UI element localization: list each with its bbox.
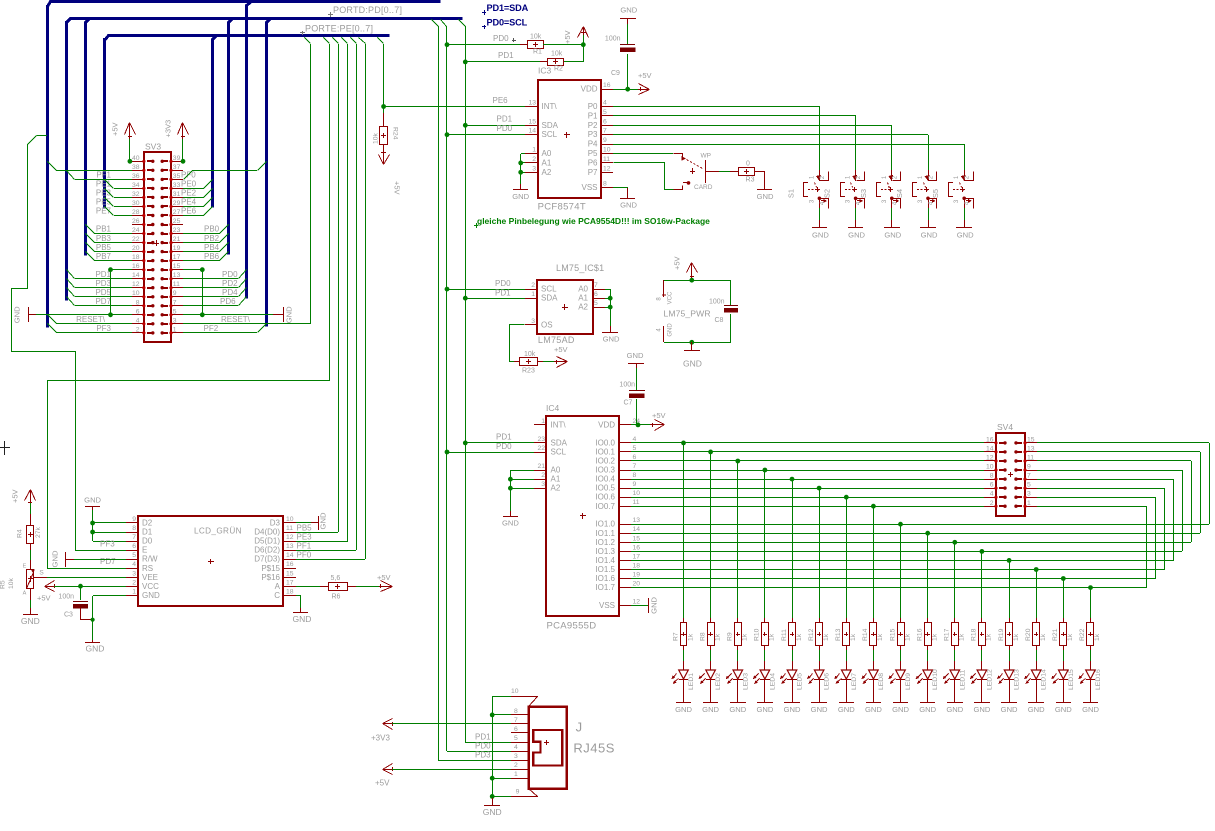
svg-text:27: 27 — [173, 209, 181, 216]
svg-text:PD3: PD3 — [475, 750, 491, 759]
svg-text:LED13: LED13 — [1014, 669, 1021, 690]
svg-text:SCL: SCL — [542, 130, 558, 139]
svg-text:GND: GND — [919, 705, 936, 714]
svg-text:IO0.7: IO0.7 — [595, 502, 615, 511]
svg-text:1k: 1k — [1013, 633, 1020, 641]
svg-text:P6: P6 — [588, 158, 598, 167]
svg-text:1: 1 — [532, 147, 536, 154]
svg-text:24: 24 — [132, 227, 140, 234]
svg-text:LED11: LED11 — [959, 670, 966, 690]
svg-text:VDD: VDD — [598, 420, 615, 429]
svg-text:6: 6 — [990, 482, 994, 489]
svg-text:A1: A1 — [542, 158, 552, 167]
svg-text:36: 36 — [132, 173, 140, 180]
svg-text:9: 9 — [132, 516, 136, 523]
svg-text:23: 23 — [537, 436, 545, 443]
svg-text:C3: C3 — [64, 612, 73, 619]
svg-text:12: 12 — [603, 165, 611, 172]
svg-text:S4: S4 — [895, 189, 904, 198]
svg-text:VCC: VCC — [668, 291, 674, 304]
svg-text:IO1.5: IO1.5 — [595, 565, 615, 574]
svg-text:18: 18 — [633, 563, 641, 570]
svg-text:PB7: PB7 — [96, 252, 112, 261]
svg-text:GND: GND — [892, 705, 909, 714]
svg-text:VEE: VEE — [142, 573, 158, 582]
svg-text:LCD_GRÜN: LCD_GRÜN — [194, 526, 242, 536]
svg-text:LED9: LED9 — [905, 673, 912, 690]
svg-text:2: 2 — [531, 282, 535, 289]
svg-text:PB2: PB2 — [204, 234, 220, 243]
svg-text:PD7: PD7 — [95, 297, 111, 306]
svg-text:1k: 1k — [904, 633, 911, 641]
svg-text:18: 18 — [132, 254, 140, 261]
svg-text:PF0: PF0 — [181, 171, 196, 180]
svg-text:38: 38 — [132, 164, 140, 171]
svg-text:PB0: PB0 — [204, 225, 220, 234]
svg-text:PE2: PE2 — [181, 189, 197, 198]
svg-text:P$16: P$16 — [261, 573, 280, 582]
svg-text:100n: 100n — [619, 382, 635, 389]
svg-text:S2: S2 — [823, 189, 832, 198]
svg-text:IC3: IC3 — [538, 66, 552, 76]
svg-text:PD0: PD0 — [222, 270, 238, 279]
svg-text:1k: 1k — [714, 633, 721, 641]
svg-text:IO1.2: IO1.2 — [595, 538, 615, 547]
svg-text:D7(D3): D7(D3) — [254, 555, 280, 564]
svg-text:2: 2 — [136, 326, 140, 333]
svg-text:100n: 100n — [709, 299, 725, 306]
svg-text:LED16: LED16 — [1095, 669, 1102, 690]
svg-text:PD0=SCL: PD0=SCL — [487, 18, 528, 28]
svg-text:S1: S1 — [786, 189, 795, 198]
svg-text:10: 10 — [132, 290, 140, 297]
svg-text:100n: 100n — [58, 594, 74, 601]
svg-text:+5V: +5V — [377, 573, 391, 582]
svg-text:PD1=SDA: PD1=SDA — [487, 3, 529, 13]
svg-text:8: 8 — [136, 299, 140, 306]
svg-text:IO0.5: IO0.5 — [595, 484, 615, 493]
svg-text:SDA: SDA — [542, 121, 559, 130]
svg-text:10: 10 — [633, 490, 641, 497]
svg-text:PD5: PD5 — [95, 288, 111, 297]
svg-text:LED14: LED14 — [1041, 669, 1048, 690]
svg-text:16: 16 — [132, 263, 140, 270]
svg-text:GND: GND — [756, 705, 773, 714]
svg-text:2: 2 — [990, 500, 994, 507]
svg-text:15: 15 — [286, 570, 294, 577]
svg-text:4: 4 — [633, 436, 637, 443]
svg-text:PD4: PD4 — [222, 288, 238, 297]
svg-text:1: 1 — [514, 771, 518, 778]
svg-text:5: 5 — [594, 300, 598, 307]
svg-text:S: S — [39, 570, 44, 577]
svg-text:4: 4 — [136, 317, 140, 324]
svg-text:15: 15 — [1027, 436, 1035, 443]
svg-text:R6: R6 — [332, 594, 341, 601]
svg-text:7: 7 — [173, 299, 177, 306]
svg-text:35: 35 — [173, 173, 181, 180]
svg-text:D0: D0 — [142, 537, 153, 546]
svg-text:GND: GND — [620, 201, 637, 210]
svg-text:22: 22 — [537, 445, 545, 452]
svg-text:PORTD:PD[0..7]: PORTD:PD[0..7] — [333, 5, 402, 15]
svg-text:LM75AD: LM75AD — [538, 335, 575, 345]
svg-text:40: 40 — [132, 155, 140, 162]
svg-text:gleiche Pinbelegung wie PCA955: gleiche Pinbelegung wie PCA9554D!!! im S… — [477, 216, 710, 226]
svg-text:GND: GND — [668, 323, 674, 337]
svg-text:R20: R20 — [1025, 628, 1032, 641]
svg-text:SDA: SDA — [541, 294, 558, 303]
svg-text:21: 21 — [173, 236, 181, 243]
svg-text:PD7: PD7 — [100, 557, 116, 566]
svg-text:PF1: PF1 — [297, 542, 312, 551]
svg-text:PE0: PE0 — [181, 180, 197, 189]
svg-text:VDD: VDD — [581, 85, 598, 94]
svg-text:GND: GND — [848, 231, 865, 240]
svg-text:3: 3 — [1027, 491, 1031, 498]
svg-text:+5V: +5V — [111, 122, 120, 136]
svg-text:GND: GND — [285, 306, 294, 323]
svg-text:GND: GND — [812, 231, 829, 240]
svg-text:A1: A1 — [551, 475, 561, 484]
svg-text:PB5: PB5 — [297, 523, 313, 532]
svg-text:PB3: PB3 — [96, 234, 112, 243]
svg-text:1k: 1k — [796, 633, 803, 641]
svg-text:IC4: IC4 — [546, 403, 560, 413]
svg-text:+3V3: +3V3 — [371, 733, 390, 742]
svg-text:GND: GND — [483, 807, 502, 817]
svg-text:GND: GND — [142, 591, 160, 600]
svg-text:31: 31 — [173, 191, 181, 198]
svg-text:12: 12 — [986, 455, 994, 462]
svg-text:+5V: +5V — [652, 411, 666, 420]
svg-text:P$15: P$15 — [261, 564, 280, 573]
svg-text:4: 4 — [132, 561, 136, 568]
svg-text:IO0.0: IO0.0 — [595, 438, 615, 447]
svg-text:IO0.3: IO0.3 — [595, 466, 615, 475]
svg-text:GND: GND — [784, 705, 801, 714]
svg-text:GND: GND — [865, 705, 882, 714]
svg-text:10: 10 — [986, 464, 994, 471]
svg-text:R4: R4 — [17, 529, 24, 538]
svg-text:2: 2 — [532, 156, 536, 163]
svg-text:39: 39 — [173, 155, 181, 162]
svg-text:GND: GND — [702, 705, 719, 714]
svg-text:A0: A0 — [551, 466, 561, 475]
svg-text:LED8: LED8 — [878, 673, 885, 690]
svg-text:LED6: LED6 — [824, 673, 831, 690]
svg-text:IO0.4: IO0.4 — [595, 475, 615, 484]
svg-text:10k: 10k — [8, 577, 15, 589]
svg-text:GND: GND — [1001, 705, 1018, 714]
svg-text:+5V: +5V — [638, 71, 652, 80]
svg-text:S3: S3 — [859, 189, 868, 198]
svg-text:GND: GND — [1028, 705, 1045, 714]
svg-text:3: 3 — [541, 481, 545, 488]
svg-text:1k: 1k — [959, 633, 966, 641]
svg-text:P3: P3 — [588, 130, 598, 139]
svg-text:PD0: PD0 — [497, 124, 513, 133]
svg-text:20: 20 — [132, 245, 140, 252]
svg-text:A: A — [275, 582, 281, 591]
svg-text:P0: P0 — [588, 102, 598, 111]
svg-text:+5V: +5V — [375, 778, 390, 787]
svg-text:E: E — [23, 564, 27, 570]
svg-text:LED4: LED4 — [769, 673, 776, 690]
svg-text:RESET\: RESET\ — [76, 315, 106, 324]
svg-text:P4: P4 — [588, 140, 598, 149]
svg-text:IO0.6: IO0.6 — [595, 493, 615, 502]
svg-text:+5V: +5V — [673, 256, 682, 270]
svg-text:R18: R18 — [971, 628, 978, 641]
svg-text:12: 12 — [633, 598, 641, 605]
svg-text:R19: R19 — [998, 628, 1005, 641]
svg-text:34: 34 — [132, 182, 140, 189]
svg-text:P5: P5 — [588, 149, 598, 158]
svg-text:R21: R21 — [1052, 628, 1059, 641]
svg-text:C: C — [274, 591, 280, 600]
svg-text:25: 25 — [173, 218, 181, 225]
svg-text:16: 16 — [603, 82, 611, 89]
svg-text:PD6: PD6 — [220, 297, 236, 306]
svg-text:5: 5 — [603, 109, 607, 116]
svg-text:6: 6 — [633, 454, 637, 461]
svg-text:LM75_IC$1: LM75_IC$1 — [556, 263, 604, 273]
svg-text:GND: GND — [319, 512, 328, 529]
svg-text:LED7: LED7 — [851, 673, 858, 690]
svg-text:+5V: +5V — [11, 489, 20, 503]
svg-text:27k: 27k — [35, 526, 42, 538]
svg-text:1k: 1k — [769, 633, 776, 641]
svg-text:33: 33 — [173, 182, 181, 189]
svg-text:GND: GND — [650, 596, 659, 613]
svg-text:9: 9 — [633, 481, 637, 488]
svg-text:GND: GND — [627, 351, 644, 360]
svg-text:4: 4 — [514, 744, 518, 751]
svg-text:R/W: R/W — [142, 555, 158, 564]
svg-text:15: 15 — [528, 118, 536, 125]
svg-text:PB5: PB5 — [96, 243, 112, 252]
svg-text:D6(D2): D6(D2) — [254, 546, 280, 555]
svg-text:10: 10 — [603, 147, 611, 154]
svg-text:PF3: PF3 — [100, 540, 115, 549]
svg-text:37: 37 — [173, 164, 181, 171]
svg-text:10k: 10k — [373, 132, 380, 144]
svg-text:C8: C8 — [715, 317, 724, 324]
svg-text:D2: D2 — [142, 519, 153, 528]
svg-text:R7: R7 — [672, 632, 679, 641]
svg-text:11: 11 — [633, 499, 640, 506]
svg-text:10: 10 — [511, 688, 519, 695]
svg-text:P2: P2 — [588, 121, 598, 130]
svg-text:100n: 100n — [605, 36, 621, 43]
svg-text:R3: R3 — [746, 177, 755, 184]
svg-text:PD0: PD0 — [493, 34, 509, 43]
svg-text:D5(D1): D5(D1) — [254, 537, 280, 546]
svg-text:13: 13 — [173, 272, 181, 279]
svg-text:11: 11 — [173, 281, 180, 288]
svg-text:A1: A1 — [578, 294, 588, 303]
svg-text:1: 1 — [132, 588, 136, 595]
svg-text:17: 17 — [633, 553, 641, 560]
svg-text:LED5: LED5 — [797, 673, 804, 690]
svg-text:22: 22 — [132, 236, 140, 243]
svg-text:GND: GND — [1055, 705, 1072, 714]
svg-text:IO1.6: IO1.6 — [595, 574, 615, 583]
svg-text:PE6: PE6 — [493, 96, 509, 105]
svg-text:GND: GND — [512, 192, 529, 201]
svg-text:SCL: SCL — [551, 448, 567, 457]
svg-text:13: 13 — [528, 100, 536, 107]
svg-text:A0: A0 — [578, 285, 588, 294]
svg-text:OS: OS — [541, 321, 553, 330]
svg-text:R2: R2 — [554, 66, 563, 73]
svg-text:1k: 1k — [932, 633, 939, 641]
svg-text:R17: R17 — [944, 628, 951, 641]
svg-text:GND: GND — [293, 614, 312, 624]
svg-text:5,6: 5,6 — [331, 575, 341, 582]
svg-text:+5V: +5V — [554, 345, 568, 354]
svg-text:RS: RS — [142, 564, 153, 573]
svg-text:6: 6 — [136, 308, 140, 315]
svg-text:RESET\: RESET\ — [221, 315, 251, 324]
svg-text:WP: WP — [701, 153, 711, 160]
svg-text:E: E — [142, 546, 147, 555]
svg-text:7: 7 — [1027, 473, 1031, 480]
svg-text:1k: 1k — [687, 633, 694, 641]
svg-text:LED3: LED3 — [742, 673, 749, 690]
svg-text:R12: R12 — [808, 628, 815, 641]
svg-text:2: 2 — [514, 762, 518, 769]
svg-text:R15: R15 — [889, 628, 896, 641]
svg-text:6: 6 — [594, 291, 598, 298]
svg-text:C7: C7 — [624, 400, 633, 407]
svg-text:R23: R23 — [522, 368, 535, 375]
svg-text:1k: 1k — [850, 633, 857, 641]
svg-text:10k: 10k — [530, 34, 542, 41]
svg-text:INT\: INT\ — [551, 420, 567, 429]
svg-text:GND: GND — [21, 616, 40, 626]
svg-text:PD0: PD0 — [496, 442, 512, 451]
svg-text:11: 11 — [603, 156, 610, 163]
svg-text:3: 3 — [531, 318, 535, 325]
svg-text:R8: R8 — [699, 632, 706, 641]
svg-text:IO0.1: IO0.1 — [595, 447, 615, 456]
svg-text:IO1.3: IO1.3 — [595, 547, 615, 556]
svg-text:9: 9 — [1027, 464, 1031, 471]
svg-text:1k: 1k — [1067, 633, 1074, 641]
svg-text:GND: GND — [1082, 705, 1099, 714]
svg-text:PB6: PB6 — [204, 252, 220, 261]
svg-text:A2: A2 — [542, 168, 552, 177]
svg-text:32: 32 — [132, 191, 140, 198]
svg-text:18: 18 — [286, 588, 294, 595]
svg-text:10k: 10k — [551, 51, 563, 58]
svg-text:16: 16 — [633, 544, 641, 551]
svg-text:PB1: PB1 — [96, 225, 112, 234]
svg-text:LED12: LED12 — [986, 669, 993, 690]
svg-text:D1: D1 — [142, 528, 153, 537]
svg-text:RJ45S: RJ45S — [573, 741, 615, 756]
svg-text:13: 13 — [1027, 445, 1035, 452]
svg-text:PE3: PE3 — [297, 532, 313, 541]
svg-text:26: 26 — [132, 218, 140, 225]
svg-text:GND: GND — [502, 518, 519, 527]
svg-text:28: 28 — [132, 209, 140, 216]
svg-text:PF0: PF0 — [297, 551, 312, 560]
svg-text:1k: 1k — [823, 633, 830, 641]
svg-text:7: 7 — [633, 463, 637, 470]
svg-text:7: 7 — [132, 534, 136, 541]
svg-text:15: 15 — [173, 263, 181, 270]
svg-text:GND: GND — [51, 550, 60, 567]
svg-text:1: 1 — [541, 418, 545, 425]
svg-text:VCC: VCC — [142, 582, 159, 591]
svg-text:PORTE:PE[0..7]: PORTE:PE[0..7] — [305, 24, 373, 34]
svg-text:GND: GND — [811, 705, 828, 714]
svg-text:2: 2 — [132, 579, 136, 586]
svg-text:PD2: PD2 — [222, 279, 238, 288]
svg-text:SDA: SDA — [551, 438, 568, 447]
svg-text:17: 17 — [286, 579, 294, 586]
svg-text:23: 23 — [173, 227, 181, 234]
svg-text:R14: R14 — [862, 628, 869, 641]
svg-text:14: 14 — [633, 526, 641, 533]
svg-text:R24: R24 — [392, 127, 399, 140]
svg-text:J: J — [576, 720, 583, 735]
svg-text:7: 7 — [603, 128, 607, 135]
svg-text:13: 13 — [286, 543, 294, 550]
svg-text:14: 14 — [528, 128, 536, 135]
svg-text:R11: R11 — [781, 629, 788, 641]
svg-text:20: 20 — [633, 581, 641, 588]
svg-text:16: 16 — [286, 561, 294, 568]
svg-text:LED1: LED1 — [688, 673, 695, 690]
svg-text:C9: C9 — [611, 70, 620, 77]
svg-text:3: 3 — [532, 165, 536, 172]
svg-text:5: 5 — [514, 735, 518, 742]
svg-text:P1: P1 — [588, 111, 598, 120]
svg-text:GND: GND — [603, 335, 620, 344]
svg-text:14: 14 — [986, 445, 994, 452]
svg-text:3: 3 — [514, 753, 518, 760]
svg-text:IO1.7: IO1.7 — [595, 583, 615, 592]
svg-text:7: 7 — [594, 282, 598, 289]
svg-text:GND: GND — [683, 359, 702, 369]
svg-text:GND: GND — [729, 705, 746, 714]
svg-text:PE4: PE4 — [181, 198, 197, 207]
svg-text:INT\: INT\ — [542, 102, 558, 111]
svg-text:GND: GND — [86, 644, 105, 654]
svg-text:SCL: SCL — [541, 285, 557, 294]
svg-text:R10: R10 — [754, 628, 761, 641]
svg-text:7: 7 — [514, 717, 518, 724]
svg-text:1k: 1k — [986, 633, 993, 641]
svg-text:PD1: PD1 — [498, 51, 514, 60]
svg-text:GND: GND — [757, 192, 774, 201]
svg-text:PF3: PF3 — [96, 324, 111, 333]
svg-text:15: 15 — [633, 535, 641, 542]
svg-text:9: 9 — [516, 788, 520, 795]
svg-text:6: 6 — [603, 118, 607, 125]
svg-text:VSS: VSS — [581, 183, 597, 192]
svg-text:12: 12 — [132, 281, 140, 288]
svg-text:5: 5 — [633, 445, 637, 452]
svg-text:SV4: SV4 — [997, 422, 1013, 432]
svg-text:14: 14 — [286, 552, 294, 559]
svg-text:R1: R1 — [533, 49, 542, 56]
svg-text:GND: GND — [675, 705, 692, 714]
